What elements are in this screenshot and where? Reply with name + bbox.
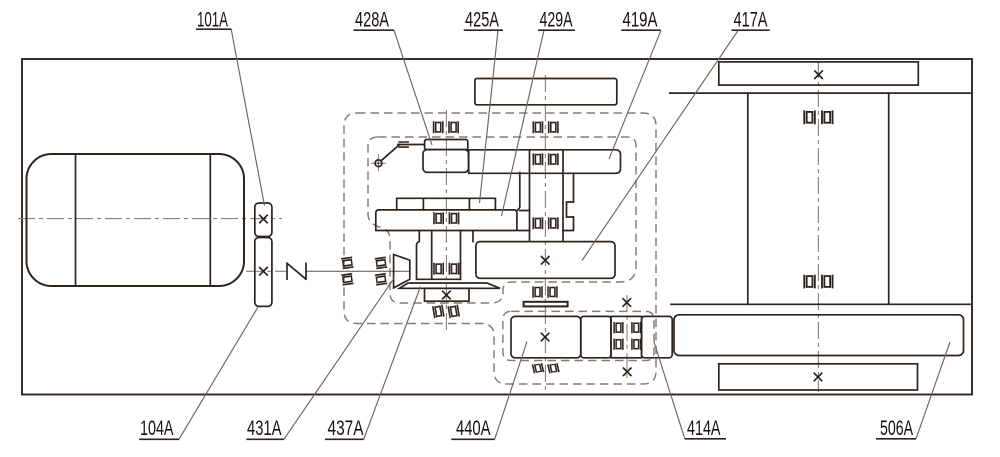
svg-text:414A: 414A <box>687 417 721 440</box>
svg-text:429A: 429A <box>540 8 573 31</box>
svg-text:419A: 419A <box>623 8 658 31</box>
svg-text:425A: 425A <box>465 8 499 31</box>
svg-text:101A: 101A <box>197 8 228 31</box>
svg-text:417A: 417A <box>734 8 768 31</box>
svg-text:506A: 506A <box>880 417 913 440</box>
svg-text:428A: 428A <box>355 8 389 31</box>
svg-text:104A: 104A <box>140 417 174 440</box>
svg-text:431A: 431A <box>247 417 282 440</box>
svg-text:437A: 437A <box>328 417 364 440</box>
svg-text:440A: 440A <box>456 417 491 440</box>
